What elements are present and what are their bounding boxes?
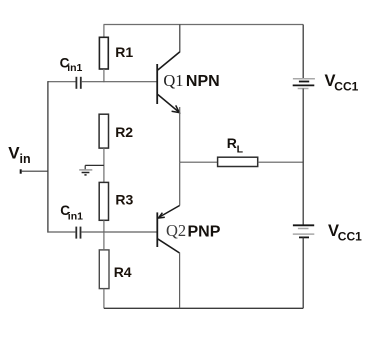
wire R2 bottom to R3 top (through ground node) — [103, 148, 105, 182]
label Cin1 (bottom) — [60, 203, 83, 222]
svg-text:R: R — [227, 135, 237, 151]
wire Vin to left line — [21, 170, 48, 172]
svg-text:PNP: PNP — [188, 223, 221, 240]
svg-text:R3: R3 — [115, 192, 133, 208]
wire R4 bottom to bottom rail — [103, 289, 105, 309]
svg-text:in: in — [20, 152, 31, 166]
Q1 emitter arrowhead — [172, 105, 180, 112]
resistor RL — [218, 157, 258, 166]
wire right rail upper (top rail to battery 1) — [302, 25, 304, 79]
node Vin terminal tick — [20, 169, 22, 173]
svg-text:in1: in1 — [68, 211, 83, 223]
svg-text:NPN: NPN — [186, 73, 220, 90]
wire output node to RL — [180, 161, 218, 163]
wire right rail middle (battery 1 to battery 2, RL junction) — [302, 89, 304, 226]
wire left input vertical line — [47, 81, 49, 233]
svg-text:Q1: Q1 — [163, 71, 183, 90]
svg-text:V: V — [8, 144, 20, 163]
wire Q2 collector to bottom rail — [179, 253, 181, 309]
wire output node down to Q2 emitter — [179, 162, 181, 205]
transistor Q1 (NPN) — [157, 52, 180, 113]
svg-text:CC1: CC1 — [334, 80, 358, 94]
resistor R3 — [99, 182, 108, 220]
ground — [79, 170, 92, 175]
capacitor Cin1 (bottom) — [76, 227, 80, 239]
svg-text:in1: in1 — [67, 62, 82, 74]
battery VCC1 (top) — [293, 79, 315, 89]
svg-text:Q2: Q2 — [166, 221, 186, 240]
resistor R4 — [99, 250, 109, 289]
wire base of Q1: cap to base bar (through R1/R2 node) — [82, 81, 158, 83]
svg-text:R2: R2 — [115, 124, 133, 140]
svg-text:R1: R1 — [115, 44, 133, 60]
Q1 base bar — [156, 64, 158, 104]
Q2 emitter lead — [159, 206, 180, 218]
wire lower base node to R4 top — [103, 232, 105, 250]
label Cin1 (top) — [60, 56, 83, 75]
Q2 base bar — [156, 212, 158, 247]
label VCC1 (bottom) — [328, 222, 362, 244]
svg-text:CC1: CC1 — [338, 230, 362, 244]
wire ground stub — [85, 165, 104, 169]
wire RL to right rail — [258, 161, 304, 163]
label Vin — [8, 144, 30, 166]
Q2 collector lead — [158, 239, 180, 253]
wire Q1 emitter down to output node — [179, 107, 181, 162]
label VCC1 (top) — [325, 72, 359, 94]
transistor Q2 (PNP) — [157, 206, 179, 254]
wire bottom rail — [104, 307, 303, 309]
Q1 emitter lead — [158, 95, 180, 113]
svg-text:L: L — [237, 143, 244, 155]
wire base of Q2: left line to cap — [48, 231, 76, 233]
Q2 emitter arrowhead — [158, 213, 164, 218]
wire right rail lower (battery 2 to bottom rail) — [302, 237, 304, 308]
Q1 collector lead — [158, 52, 180, 70]
label RL — [227, 135, 244, 155]
resistor R2 — [99, 114, 108, 148]
wire top-left corner down to R1 — [103, 25, 105, 38]
wire base of Q2: cap to base bar (through R3/R4 node) — [81, 231, 157, 233]
resistor R1 — [99, 37, 108, 69]
svg-text:R4: R4 — [114, 264, 132, 280]
wire Q1 collector to top rail — [179, 25, 181, 53]
battery VCC1 (bottom) — [293, 225, 315, 237]
wire top rail — [104, 24, 304, 26]
wire R1 bottom to base node — [103, 69, 105, 82]
wire base of Q1: left line to cap — [48, 81, 76, 83]
capacitor Cin1 (top) — [76, 77, 80, 89]
wire R3 bottom to lower base node — [103, 220, 105, 232]
